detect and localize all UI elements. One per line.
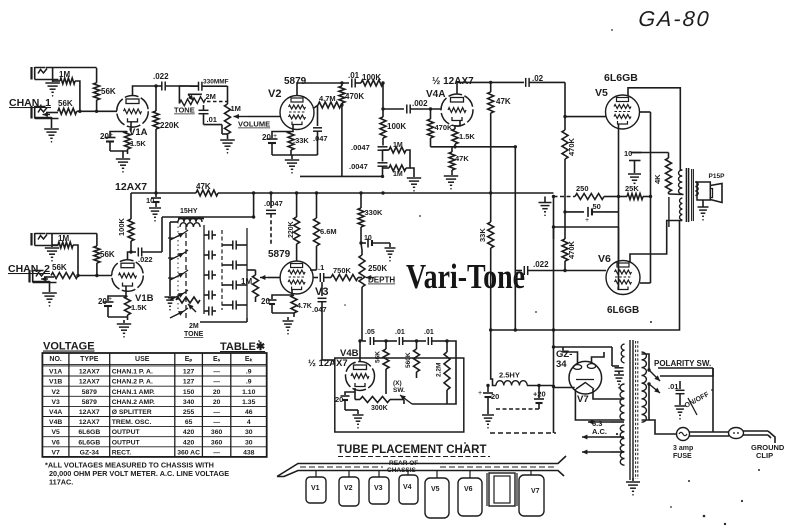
svg-text:.0047: .0047 bbox=[349, 162, 368, 171]
svg-text:.0047: .0047 bbox=[264, 199, 283, 208]
power transformer T1 heater winding bbox=[620, 425, 624, 465]
line cord bbox=[690, 431, 730, 433]
svg-text:CHAN.2 AMP.: CHAN.2 AMP. bbox=[112, 399, 155, 406]
wire B+ to output transformer bbox=[491, 221, 680, 330]
ground under jack J3 bbox=[51, 234, 53, 248]
svg-text:20: 20 bbox=[335, 395, 343, 404]
svg-text:250: 250 bbox=[576, 184, 589, 193]
svg-text:20: 20 bbox=[491, 392, 499, 401]
wire V7 filament legs bbox=[593, 389, 624, 399]
capacitor .022 (V1B coupling) bbox=[131, 251, 136, 253]
svg-text:33K: 33K bbox=[478, 228, 487, 242]
svg-text:NO.: NO. bbox=[49, 356, 62, 363]
svg-text:10: 10 bbox=[624, 149, 632, 158]
wire tail node bbox=[431, 146, 516, 148]
input jack J2 (channel 1 bottom) bbox=[30, 106, 32, 119]
svg-text:20: 20 bbox=[261, 297, 270, 306]
ground divider bbox=[407, 177, 421, 179]
output transformer T2 primary lower bbox=[680, 198, 683, 220]
wire V3 screen bbox=[316, 260, 318, 270]
svg-text:5879: 5879 bbox=[284, 76, 307, 87]
svg-text:220K: 220K bbox=[288, 221, 295, 238]
switch contact stubs bbox=[168, 237, 174, 239]
resistor 47K (B+ dropper) bbox=[196, 190, 218, 196]
svg-text:V3: V3 bbox=[374, 485, 383, 492]
rotary switch wafer (Vari-Tone) bbox=[185, 225, 187, 318]
capacitor .047 (V3 screen bypass) bbox=[321, 282, 323, 296]
svg-text:255: 255 bbox=[183, 409, 195, 416]
tube V4B triode bbox=[346, 362, 375, 391]
svg-text:.05: .05 bbox=[365, 329, 375, 336]
capacitor 20 (V1B cathode bypass) bbox=[108, 287, 126, 302]
wire polarity to line bbox=[660, 368, 713, 376]
svg-text:560K: 560K bbox=[405, 352, 412, 368]
wire V5 screen lead bbox=[639, 111, 651, 113]
ground trem bbox=[389, 243, 391, 247]
wire divider right leg bbox=[406, 150, 410, 168]
svg-text:.022: .022 bbox=[533, 260, 549, 269]
wire speaker to ground bbox=[695, 181, 697, 183]
resistor 4.7M (V2 screen feed) bbox=[314, 105, 318, 108]
resistor 56K shunt (channel 1) bbox=[96, 68, 98, 83]
svg-text:.01: .01 bbox=[207, 115, 217, 124]
ground V1A cathode bbox=[110, 150, 128, 152]
wire phase network right bbox=[440, 341, 456, 404]
wire fuse to primary bbox=[649, 420, 677, 434]
svg-text:5879: 5879 bbox=[82, 399, 97, 406]
switch arrow into jack J2 bbox=[46, 112, 58, 114]
svg-text:1M: 1M bbox=[393, 171, 403, 178]
wire V6 plate bbox=[630, 221, 682, 263]
wire cord to clip bbox=[743, 430, 768, 432]
svg-text:56K: 56K bbox=[101, 87, 116, 96]
tube V1B triode bbox=[112, 260, 144, 292]
svg-text:+20: +20 bbox=[533, 390, 546, 399]
svg-text:Ø SPLITTER: Ø SPLITTER bbox=[112, 409, 152, 416]
potentiometer 2M TONE (channel 2) bbox=[176, 297, 200, 303]
capacitor bank column 1 bbox=[203, 225, 205, 314]
svg-text:12AX7: 12AX7 bbox=[79, 369, 100, 376]
svg-text:1.35: 1.35 bbox=[242, 399, 255, 406]
potentiometer 2M TONE bbox=[179, 86, 190, 104]
tube V2 pentode 5879 bbox=[280, 96, 314, 130]
svg-text:20: 20 bbox=[98, 297, 107, 306]
capacitor HV to ground bbox=[612, 365, 619, 367]
svg-text:—: — bbox=[213, 379, 220, 386]
ground line cap bbox=[675, 405, 686, 407]
capacitor 20 (filter 2) bbox=[538, 386, 540, 399]
wire V4B plate bbox=[359, 341, 361, 362]
tube V1A triode bbox=[117, 96, 149, 128]
resistor 100K (V1B plate load) bbox=[130, 193, 132, 219]
svg-text:.9: .9 bbox=[246, 369, 252, 376]
wire bbox=[247, 269, 256, 271]
svg-text:USE: USE bbox=[135, 356, 150, 363]
svg-text:6L6GB: 6L6GB bbox=[604, 72, 638, 84]
svg-text:330MMF: 330MMF bbox=[203, 79, 229, 86]
wire node chan1 grid bbox=[80, 110, 117, 112]
svg-text:V6: V6 bbox=[51, 439, 60, 446]
node junction bbox=[381, 81, 384, 84]
wire tone wiper bbox=[188, 93, 202, 95]
svg-text:Eₚ: Eₚ bbox=[185, 356, 193, 363]
wire row bbox=[554, 226, 619, 228]
svg-text:1.5K: 1.5K bbox=[130, 139, 146, 148]
svg-text:1M: 1M bbox=[393, 142, 403, 149]
svg-text:12AX7: 12AX7 bbox=[115, 181, 147, 193]
resistor 56K shunt (channel 2) bbox=[96, 234, 98, 247]
capacitor .01 (line filter) bbox=[679, 381, 681, 389]
svg-text:750K: 750K bbox=[333, 266, 352, 275]
svg-text:250K: 250K bbox=[368, 264, 387, 273]
capacitor 20 (V3 cathode) bbox=[272, 290, 292, 299]
svg-text:127: 127 bbox=[183, 379, 195, 386]
ground filter 1 bbox=[482, 414, 494, 416]
resistor 470K (V4A grid) bbox=[430, 109, 432, 119]
capacitor bank column 2 bbox=[246, 228, 248, 318]
svg-text:4K: 4K bbox=[653, 174, 662, 184]
wire bbox=[496, 408, 539, 410]
resistor 1M (divider 1) bbox=[389, 147, 406, 153]
output transformer T2 primary upper bbox=[679, 170, 683, 194]
svg-text:POLARITY SW.: POLARITY SW. bbox=[654, 359, 711, 368]
svg-text:(X): (X) bbox=[393, 380, 402, 387]
tube socket V3 bbox=[369, 477, 389, 504]
tube V5 pentode 6L6GB bbox=[606, 95, 640, 129]
svg-text:Eₛ: Eₛ bbox=[213, 356, 221, 363]
wire bbox=[221, 230, 223, 310]
svg-text:1M: 1M bbox=[231, 104, 241, 113]
resistor 1M (J1 grid leak) bbox=[53, 80, 60, 82]
wire chan2 grid bbox=[78, 275, 112, 277]
svg-text:300K: 300K bbox=[371, 405, 388, 412]
resistor 330K (trem feed) bbox=[360, 193, 362, 208]
svg-text:117AC.: 117AC. bbox=[49, 478, 73, 487]
capacitor .1 (V3 output coupling) bbox=[313, 277, 318, 279]
svg-text:65: 65 bbox=[185, 419, 193, 426]
resistor 470K (V5 grid leak) bbox=[562, 130, 568, 159]
svg-text:470K: 470K bbox=[567, 240, 576, 259]
capacitor .01 (tone) bbox=[203, 105, 205, 110]
speaker P15P bbox=[697, 182, 710, 200]
svg-text:2M: 2M bbox=[189, 323, 199, 330]
tube socket V5 bbox=[425, 478, 449, 518]
wire volume wiper to V2 grid bbox=[248, 116, 280, 118]
wire bbox=[46, 233, 97, 235]
svg-text:6L6GB: 6L6GB bbox=[607, 305, 639, 316]
svg-text:4.7K: 4.7K bbox=[297, 303, 312, 310]
svg-text:15HY: 15HY bbox=[180, 208, 198, 215]
capacitor .01 (phase shift 3) bbox=[413, 340, 426, 342]
svg-text:Eₖ: Eₖ bbox=[245, 356, 253, 363]
power transformer T1 primary bbox=[642, 352, 647, 422]
svg-text:100K: 100K bbox=[117, 217, 126, 236]
svg-text:100K: 100K bbox=[387, 122, 406, 131]
wire heater bus bbox=[131, 192, 196, 194]
capacitor .002 (V4A grid coupling) bbox=[383, 108, 404, 110]
capacitor .01 (phase shift 2) bbox=[382, 340, 397, 342]
svg-text:V6: V6 bbox=[464, 486, 473, 493]
resistor 4K (screen feed) bbox=[666, 158, 672, 192]
svg-text:470K: 470K bbox=[345, 92, 364, 101]
svg-text:47K: 47K bbox=[196, 182, 211, 191]
svg-text:56K: 56K bbox=[58, 99, 73, 108]
svg-text:5879: 5879 bbox=[82, 389, 97, 396]
svg-text:CHAN.1 P. A.: CHAN.1 P. A. bbox=[112, 369, 153, 376]
svg-text:Vari-Tone: Vari-Tone bbox=[406, 257, 525, 296]
svg-text:25K: 25K bbox=[625, 184, 639, 193]
tube socket V6 bbox=[458, 478, 482, 516]
svg-text:CHASSIS: CHASSIS bbox=[387, 467, 417, 474]
resistor 560K (phase shift 2) bbox=[416, 341, 418, 349]
svg-text:—: — bbox=[213, 409, 220, 416]
svg-text:OUTPUT: OUTPUT bbox=[112, 439, 141, 446]
resistor 2.2M (phase shift 3) bbox=[446, 341, 448, 352]
svg-text:4: 4 bbox=[247, 419, 251, 426]
wire B+ drop line bbox=[490, 113, 492, 222]
svg-text:+: + bbox=[108, 296, 112, 303]
wire switch top bus bbox=[161, 217, 163, 252]
wire switch out bbox=[246, 318, 248, 322]
svg-text:6L6GB: 6L6GB bbox=[78, 429, 100, 436]
svg-text:220K: 220K bbox=[160, 121, 179, 130]
capacitor 20 (V1A cathode bypass) bbox=[130, 122, 132, 132]
input jack J1 (channel 1 top) bbox=[30, 67, 32, 80]
svg-text:CHAN.1 AMP.: CHAN.1 AMP. bbox=[112, 389, 155, 396]
svg-text:½ 12AX7: ½ 12AX7 bbox=[308, 358, 348, 369]
svg-text:V2: V2 bbox=[268, 88, 281, 100]
ground HV cap bbox=[614, 374, 624, 376]
resistor 4.7K (V3 cathode) bbox=[291, 295, 297, 313]
ground under jack J4 bbox=[49, 281, 51, 292]
wire 470K junction down bbox=[564, 212, 566, 239]
svg-text:50: 50 bbox=[593, 202, 601, 211]
capacitor 20 (V2 cathode bypass) bbox=[272, 125, 293, 138]
resistor 220K (V3 plate load) bbox=[296, 193, 298, 217]
svg-text:360: 360 bbox=[211, 429, 223, 436]
svg-text:V5: V5 bbox=[431, 486, 440, 493]
svg-text:P15P: P15P bbox=[709, 173, 726, 180]
capacitor .01 (V2 plate coupling) bbox=[351, 79, 353, 88]
svg-text:V1: V1 bbox=[311, 485, 320, 492]
svg-text:4.7M: 4.7M bbox=[319, 94, 336, 103]
svg-text:34: 34 bbox=[556, 359, 567, 370]
svg-text:.01: .01 bbox=[424, 329, 434, 336]
svg-text:A.C.: A.C. bbox=[592, 427, 607, 436]
capacitor .0047 (divider 2) bbox=[378, 162, 388, 164]
resistor 56K series (channel 2) bbox=[51, 273, 78, 279]
wire bbox=[73, 245, 78, 276]
svg-text:+: + bbox=[109, 132, 113, 139]
svg-text:VOLTAGE: VOLTAGE bbox=[43, 341, 95, 353]
resistor 1.5K (V1B cathode) bbox=[125, 296, 131, 315]
wire V1B plate bbox=[128, 252, 132, 260]
ground V4A tail bbox=[444, 175, 458, 177]
resistor 470K (V6 grid leak) bbox=[562, 239, 568, 261]
switch trem bbox=[400, 395, 412, 404]
svg-text:GZ-34: GZ-34 bbox=[80, 449, 99, 456]
svg-text:.01: .01 bbox=[668, 382, 678, 391]
svg-text:.022: .022 bbox=[138, 255, 153, 264]
tube socket V4 bbox=[399, 475, 418, 504]
wire .022 to V6 line bbox=[514, 147, 516, 271]
svg-text:2.5HY: 2.5HY bbox=[499, 371, 520, 380]
svg-text:VOLUME: VOLUME bbox=[238, 120, 270, 129]
resistor .33K (V2 cathode) bbox=[288, 132, 294, 151]
ground V1B cathode bbox=[108, 316, 128, 318]
tube socket V1 bbox=[306, 477, 326, 503]
svg-text:TYPE: TYPE bbox=[80, 356, 99, 363]
potentiometer 1M VOLUME bbox=[227, 86, 229, 104]
svg-text:V4A: V4A bbox=[49, 409, 62, 416]
svg-text:.9: .9 bbox=[246, 379, 252, 386]
svg-text:—: — bbox=[213, 419, 220, 426]
svg-text:2.2M: 2.2M bbox=[436, 363, 443, 377]
wire heater leads bbox=[582, 436, 610, 438]
resistor 33K (B+ dropper) bbox=[488, 222, 494, 248]
line switch bbox=[688, 398, 697, 415]
svg-text:56K: 56K bbox=[375, 351, 382, 363]
resistor 6.6M (V3 grid feed) bbox=[316, 193, 318, 218]
svg-text:438: 438 bbox=[243, 449, 255, 456]
svg-text:127: 127 bbox=[183, 369, 195, 376]
svg-text:V4: V4 bbox=[403, 484, 412, 491]
svg-text:V1A: V1A bbox=[49, 369, 62, 376]
power transformer core bbox=[629, 340, 631, 480]
input jack J4 (channel 2 bottom) bbox=[28, 270, 30, 283]
svg-text:10: 10 bbox=[364, 235, 372, 242]
resistor 47K (V4A tail) bbox=[449, 152, 455, 170]
svg-text:FUSE: FUSE bbox=[673, 453, 692, 460]
tube V4A triode bbox=[441, 94, 473, 126]
svg-text:.1: .1 bbox=[318, 263, 324, 272]
chassis bar bbox=[277, 456, 566, 477]
svg-text:TREM. OSC.: TREM. OSC. bbox=[112, 419, 152, 426]
tube V6 pentode 6L6GB bbox=[606, 261, 640, 295]
resistor 100K (to phase inverter) bbox=[361, 80, 383, 86]
svg-text:—: — bbox=[213, 369, 220, 376]
power transformer T1 rectifier filament winding bbox=[620, 384, 625, 420]
wire bus bottom bbox=[490, 432, 556, 434]
svg-text:10: 10 bbox=[146, 196, 154, 205]
wire V6 cathode bbox=[618, 212, 620, 290]
wire V5 cathode bbox=[618, 125, 620, 197]
svg-text:V2: V2 bbox=[51, 389, 60, 396]
svg-text:470K: 470K bbox=[435, 123, 454, 132]
svg-text:150: 150 bbox=[183, 389, 195, 396]
svg-text:DEPTH: DEPTH bbox=[368, 276, 395, 285]
output transformer secondary bbox=[695, 182, 698, 196]
svg-text:1.5K: 1.5K bbox=[131, 303, 147, 312]
svg-text:12AX7: 12AX7 bbox=[79, 419, 100, 426]
svg-text:V4A: V4A bbox=[426, 89, 445, 100]
capacitor 20 (V4B cathode) bbox=[345, 388, 355, 395]
wire V7 plates to HV winding bbox=[563, 347, 578, 365]
svg-text:20: 20 bbox=[213, 399, 221, 406]
resistor 56K series (channel 1) bbox=[58, 108, 77, 114]
svg-text:360 AC: 360 AC bbox=[177, 449, 200, 456]
wire to fuse bbox=[712, 368, 714, 432]
svg-text:.01: .01 bbox=[395, 329, 405, 336]
svg-text:CHAN.2 P. A.: CHAN.2 P. A. bbox=[112, 379, 153, 386]
svg-text:100K: 100K bbox=[362, 73, 381, 82]
svg-text:.047: .047 bbox=[313, 134, 328, 143]
svg-text:V1B: V1B bbox=[49, 379, 62, 386]
tube V7 rectifier GZ34 bbox=[569, 361, 602, 394]
wire B+ from filament bbox=[554, 387, 575, 389]
svg-text:20: 20 bbox=[213, 389, 221, 396]
svg-text:20,000 OHM PER VOLT METER. A.: 20,000 OHM PER VOLT METER. A.C. LINE VOL… bbox=[49, 469, 229, 478]
svg-text:.01: .01 bbox=[348, 71, 360, 80]
svg-text:1.10: 1.10 bbox=[242, 389, 255, 396]
capacitor .02 (V5 grid coupling) bbox=[491, 81, 524, 83]
wire bbox=[618, 227, 620, 261]
voltage table grid bbox=[42, 353, 266, 457]
ground V4B bbox=[345, 409, 358, 411]
svg-text:420: 420 bbox=[183, 439, 195, 446]
svg-text:12AX7: 12AX7 bbox=[79, 379, 100, 386]
svg-text:2M: 2M bbox=[206, 92, 216, 101]
wire V4A plate bbox=[457, 82, 491, 94]
svg-text:47K: 47K bbox=[455, 154, 469, 163]
resistor 470K (screen supply) bbox=[341, 83, 343, 86]
ground speaker bbox=[698, 206, 709, 208]
capacitor .0047 (divider 1) bbox=[378, 146, 388, 148]
resistor 220K (V1A plate load) bbox=[155, 86, 157, 111]
svg-text:20: 20 bbox=[262, 133, 271, 142]
svg-text:56K: 56K bbox=[100, 250, 115, 259]
ground under jack J2 bbox=[51, 117, 53, 128]
ground transformer bbox=[632, 478, 634, 481]
ground at feedback row bbox=[544, 197, 546, 203]
ground switch assembly bbox=[169, 290, 171, 296]
svg-text:GA-80: GA-80 bbox=[638, 7, 712, 31]
svg-text:340: 340 bbox=[183, 399, 195, 406]
svg-text:.33K: .33K bbox=[293, 136, 309, 145]
svg-text:1M: 1M bbox=[58, 234, 69, 243]
capacitor 330MMF bbox=[198, 82, 200, 91]
svg-text:+: + bbox=[478, 390, 482, 397]
svg-text:47K: 47K bbox=[496, 97, 511, 106]
svg-text:.02: .02 bbox=[532, 74, 544, 83]
svg-text:46: 46 bbox=[245, 409, 253, 416]
wire V1A plate bbox=[133, 86, 157, 96]
svg-text:3 amp: 3 amp bbox=[673, 445, 693, 452]
switch arrow into jack J4 bbox=[44, 276, 54, 278]
svg-text:.047: .047 bbox=[312, 305, 327, 314]
svg-text:30: 30 bbox=[245, 429, 253, 436]
ground V2 cathode bbox=[272, 154, 318, 156]
ground screen cap bbox=[628, 173, 641, 175]
svg-text:OUTPUT: OUTPUT bbox=[112, 429, 141, 436]
resistor 300K (trem intensity) bbox=[354, 392, 356, 400]
resistor 25K (hum balance) bbox=[619, 196, 628, 198]
svg-text:½ 12AX7: ½ 12AX7 bbox=[432, 76, 474, 87]
noise specks bbox=[616, 433, 618, 435]
capacitor .022 (V6 grid coupling) bbox=[515, 270, 522, 272]
capacitor 50 (cathode bypass) bbox=[565, 211, 584, 213]
svg-text:1.5K: 1.5K bbox=[459, 132, 475, 141]
wire B+ bus mid bbox=[218, 192, 554, 194]
svg-text:330K: 330K bbox=[365, 208, 384, 217]
resistor 47K (V4A plate load) bbox=[488, 92, 494, 113]
wire screen node down bbox=[341, 105, 343, 176]
svg-text:56K: 56K bbox=[52, 263, 67, 272]
wire V5 plate bbox=[628, 88, 682, 170]
svg-text:5879: 5879 bbox=[268, 249, 291, 260]
ground bbox=[149, 207, 161, 209]
svg-text:TONE: TONE bbox=[184, 331, 204, 338]
